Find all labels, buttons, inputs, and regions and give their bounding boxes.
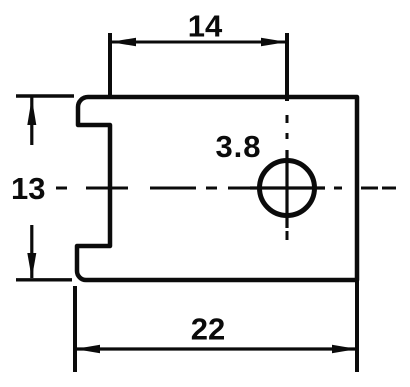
vertical centerline dot — [286, 133, 289, 139]
dim 13 extension line top — [16, 94, 74, 97]
dim 14 line — [110, 41, 287, 44]
dim 13 extension line bottom — [16, 278, 72, 281]
svg-text:3.8: 3.8 — [215, 129, 261, 164]
dim 13 line top segment — [30, 97, 33, 145]
dim 22 arrow left — [75, 345, 100, 354]
vertical centerline dash below hole — [286, 231, 289, 240]
hole horizontal crosshair — [250, 186, 325, 189]
dim 22 extension line right — [355, 280, 359, 372]
dim 13 arrow up — [27, 98, 36, 125]
horizontal centerline long dash — [150, 187, 196, 190]
svg-text:14: 14 — [188, 9, 223, 44]
horizontal centerline dash — [56, 187, 67, 190]
dim 14 arrow left — [110, 38, 136, 47]
svg-text:22: 22 — [191, 312, 225, 347]
dim 13 line bottom segment — [30, 225, 33, 278]
dim 22 arrow right — [332, 345, 357, 354]
horizontal centerline dash — [206, 187, 217, 190]
dim 13 arrow down — [27, 253, 36, 279]
dim 14 arrow right — [261, 38, 287, 47]
dim 22 line — [75, 347, 357, 350]
dim 14 extension line right / centerline top — [285, 33, 289, 101]
horizontal centerline dash — [361, 187, 378, 190]
hole vertical crosshair — [285, 150, 288, 228]
horizontal centerline dash — [334, 187, 342, 190]
horizontal centerline dash — [382, 187, 396, 190]
hole circle 3.8 — [260, 161, 315, 216]
horizontal centerline dash — [228, 187, 252, 190]
dim 22 extension line left — [73, 286, 77, 372]
vertical centerline dash — [286, 115, 289, 123]
part outline (clip / plate with left notch) — [77, 97, 357, 280]
horizontal centerline dash — [86, 187, 128, 190]
dim 14 extension line left — [108, 33, 112, 95]
svg-text:13: 13 — [11, 171, 45, 206]
